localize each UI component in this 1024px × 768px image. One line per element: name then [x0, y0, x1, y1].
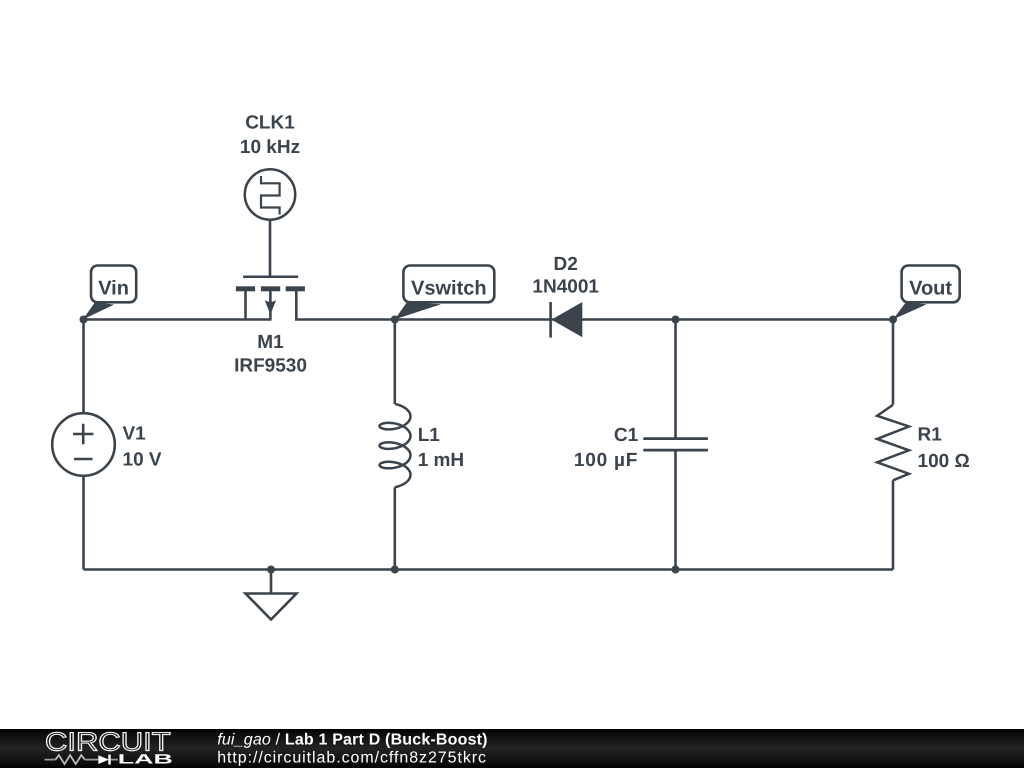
svg-text:V1: V1	[123, 424, 147, 445]
svg-text:L1: L1	[418, 425, 441, 446]
footer logo wire right	[111, 759, 118, 761]
transistor M1 bulk segment	[261, 286, 280, 291]
wire bottom bus	[84, 568, 894, 571]
svg-text:R1: R1	[918, 425, 943, 446]
transistor M1 source lead	[244, 291, 247, 320]
ground stub wire	[270, 570, 273, 594]
footer logo wire left	[45, 759, 56, 761]
node ground junction dot	[267, 566, 275, 574]
transistor M1 bulk arrow	[265, 300, 276, 312]
svg-text:Vout: Vout	[909, 278, 952, 300]
node Vout junction dot	[889, 316, 897, 324]
svg-text:LAB: LAB	[118, 751, 173, 766]
wire R1 top lead	[892, 320, 895, 405]
svg-text:100 Ω: 100 Ω	[918, 451, 970, 472]
svg-text:CLK1: CLK1	[245, 112, 295, 133]
svg-text:IRF9530: IRF9530	[234, 356, 307, 377]
svg-text:10 V: 10 V	[123, 450, 162, 471]
wire C1 bottom lead	[674, 450, 677, 569]
capacitor C1 top plate	[643, 437, 708, 440]
net label Vin box	[91, 266, 136, 303]
wire V1 bottom to bottom bus	[82, 476, 85, 570]
capacitor C1 bottom plate	[643, 449, 708, 452]
svg-text:1 mH: 1 mH	[418, 450, 464, 471]
voltage source V1 plus sign	[73, 424, 93, 444]
voltage source V1 circle	[52, 413, 115, 476]
wire CLK1 to M1 gate	[269, 220, 272, 277]
clock source CLK1 circle	[245, 169, 295, 219]
inductor L1 coil	[380, 404, 411, 487]
net label Vin tail	[83, 302, 114, 319]
node Vin junction dot	[80, 316, 88, 324]
transistor M1 bulk lead	[269, 291, 272, 320]
net label Vswitch tail	[395, 302, 441, 319]
wire top-right: M1 drain through D2 to Vout node	[295, 318, 893, 321]
footer logo resistor zigzag	[56, 755, 85, 764]
svg-text:http://circuitlab.com/cffn8z27: http://circuitlab.com/cffn8z275tkrc	[217, 749, 486, 766]
svg-text:M1: M1	[257, 332, 284, 353]
footer logo wire mid	[85, 759, 99, 761]
wire C1 top lead	[674, 320, 677, 439]
wire Vswitch node down to L1	[393, 320, 396, 405]
wire R1 bottom lead	[892, 480, 895, 569]
node L1-bottom junction dot	[391, 566, 399, 574]
svg-text:fui_gao / Lab 1 Part D (Buck-B: fui_gao / Lab 1 Part D (Buck-Boost)	[217, 731, 487, 748]
footer logo diode	[98, 755, 109, 764]
wire L1 bottom to bus	[393, 487, 396, 569]
transistor M1 drain lead	[295, 291, 298, 320]
node C1-bottom junction dot	[672, 566, 680, 574]
diode D2 cathode bar	[549, 302, 552, 338]
ground symbol	[246, 594, 297, 620]
voltage source V1 minus sign	[74, 458, 93, 461]
transistor M1 drain segment	[286, 286, 305, 291]
node Vswitch junction dot	[391, 316, 399, 324]
node C1-top junction dot	[672, 316, 680, 324]
net label Vout box	[902, 266, 960, 303]
transistor M1 source segment	[236, 286, 255, 291]
clock source CLK1 waveform glyph	[261, 176, 280, 215]
svg-text:10 kHz: 10 kHz	[240, 137, 300, 158]
svg-text:C1: C1	[614, 425, 639, 446]
svg-text:Vswitch: Vswitch	[411, 278, 487, 300]
wire left branch: Vin node down to V1	[82, 320, 85, 414]
wire top-left: Vin node to M1 source/bulk	[83, 318, 272, 321]
svg-text:D2: D2	[554, 254, 578, 275]
svg-text:Vin: Vin	[98, 278, 129, 300]
net label Vswitch box	[403, 266, 494, 303]
diode D2 triangle	[552, 302, 583, 337]
svg-text:100 µF: 100 µF	[574, 450, 638, 471]
net label Vout tail	[893, 302, 927, 319]
resistor R1 zigzag	[877, 405, 909, 481]
footer bar	[0, 729, 1024, 768]
svg-text:1N4001: 1N4001	[532, 277, 599, 298]
transistor M1 gate bar	[243, 276, 298, 279]
